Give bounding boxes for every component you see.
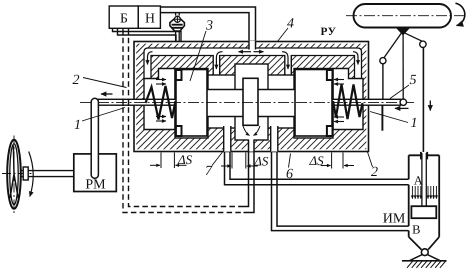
motion arrow rod left [395,107,409,109]
leader 7 [212,152,223,166]
leader 6 [289,154,291,168]
pivot joint [421,249,428,256]
leader 2 right [368,152,373,167]
center return chamber [235,64,268,140]
spool rod [95,99,401,105]
shaft hub [23,167,28,180]
spring seat left bottom [176,126,182,136]
bottom port 1 [224,126,231,152]
branch slot left [214,55,219,79]
svg-text:7: 7 [205,164,213,179]
leader 1 right [370,112,408,123]
spring force arrows left [156,80,166,122]
svg-text:ΔS: ΔS [309,153,325,168]
wheel spokes [10,146,18,199]
svg-text:6: 6 [286,167,293,182]
actuator link joint [420,41,426,47]
svg-text:1: 1 [411,116,418,131]
throat left [208,75,243,128]
right land bore [294,69,333,139]
actuator rod upper [422,47,424,152]
support legs [409,255,440,261]
return flow curved arrows at center port [243,126,250,136]
motion arrow down [429,101,431,111]
svg-text:А: А [414,174,423,188]
feedback link to housing [382,64,384,100]
dashed return line (valve to tank) [123,29,244,213]
leader 3 [190,31,206,81]
piston rod inside cylinder [422,153,426,206]
dS dimension 2 [221,153,258,169]
tyre axis [346,15,466,17]
road wheel (tyre) [354,4,452,28]
leader 2 left [83,78,127,88]
spring seat right top [327,70,333,80]
bottom port 3 [271,126,278,152]
left spring chamber [144,69,175,130]
sector link rod [91,98,98,178]
leader 4 [278,28,289,42]
supply slot through body top [250,41,255,49]
ground [402,260,447,262]
svg-text:5: 5 [410,73,417,88]
turn arrow [456,3,465,25]
flow arrows in gallery [148,52,359,69]
bottom port 2 [249,139,254,152]
return pipe tank to relief [113,28,182,41]
svg-text:РУ: РУ [320,26,336,38]
cylinder IM body [409,152,440,237]
svg-text:ΔS: ΔS [177,152,193,167]
spring force arrows right [334,80,344,122]
pipe port3 to cylinder B [272,152,409,231]
pressure arrows chamber A [412,186,436,199]
svg-text:ΔS: ΔS [253,153,269,168]
spool center land [243,78,258,125]
kingpin [396,27,410,34]
pipe port2 to dashed return [244,140,255,213]
dS dimension 1 [150,153,187,169]
shaft axis [2,173,34,175]
spring seat left top [176,70,182,80]
link to bellcrank joint [384,33,402,59]
svg-text:Б: Б [120,11,128,26]
rod end joint [400,99,406,105]
spool axis line [80,101,414,103]
motion arrow left rod [101,93,113,95]
steering wheel rim [7,140,21,209]
spring seat right bottom [327,126,333,136]
spool neck [196,90,302,117]
cylinder bottom taper [409,237,440,250]
wheel turn arrow [29,152,33,197]
steering gear RM box [74,154,117,192]
svg-text:Н: Н [145,11,155,26]
wheel axis [13,136,15,215]
gallery channel [144,48,362,79]
tank B box [109,6,138,28]
valve body RU housing (hatched) [134,42,369,152]
pipe port1 to cylinder A [225,152,409,185]
branch slot right [285,55,290,79]
center link to spool rod [402,34,404,99]
spool left land [176,70,207,137]
relief valve KP [170,13,185,41]
right spring [333,85,363,120]
link to actuator rod [404,33,422,42]
left land bore [175,69,208,139]
svg-text:2: 2 [371,165,378,180]
svg-text:2: 2 [73,73,80,88]
leader 5 [390,85,409,99]
left spring [146,86,176,120]
svg-text:4: 4 [287,17,294,32]
steering shaft [21,171,74,177]
svg-text:В: В [412,223,420,237]
pump N box [138,6,160,28]
piston [411,206,436,218]
svg-text:1: 1 [74,118,81,133]
spool right land [295,70,332,137]
supply pipe from pump to valve inlet [160,7,255,41]
bellcrank joint [380,58,386,64]
right spring chamber [333,69,363,130]
dashed line ticks over rod [123,99,129,106]
throat right [259,75,294,128]
svg-text:РМ: РМ [85,178,106,193]
svg-text:ИМ: ИМ [383,212,406,227]
leader 1 left [82,108,125,122]
svg-text:3: 3 [205,19,213,34]
dS dimension 3 [321,153,354,169]
